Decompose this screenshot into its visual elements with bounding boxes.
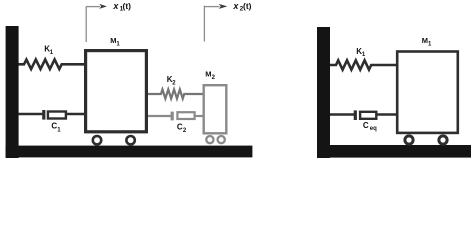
svg-text:eq: eq xyxy=(370,126,377,132)
svg-text:(t): (t) xyxy=(123,1,132,11)
svg-text:x: x xyxy=(232,1,239,11)
svg-text:M: M xyxy=(422,36,428,45)
svg-text:x: x xyxy=(112,1,119,11)
svg-text:(t): (t) xyxy=(243,1,252,11)
svg-text:C: C xyxy=(363,121,369,130)
